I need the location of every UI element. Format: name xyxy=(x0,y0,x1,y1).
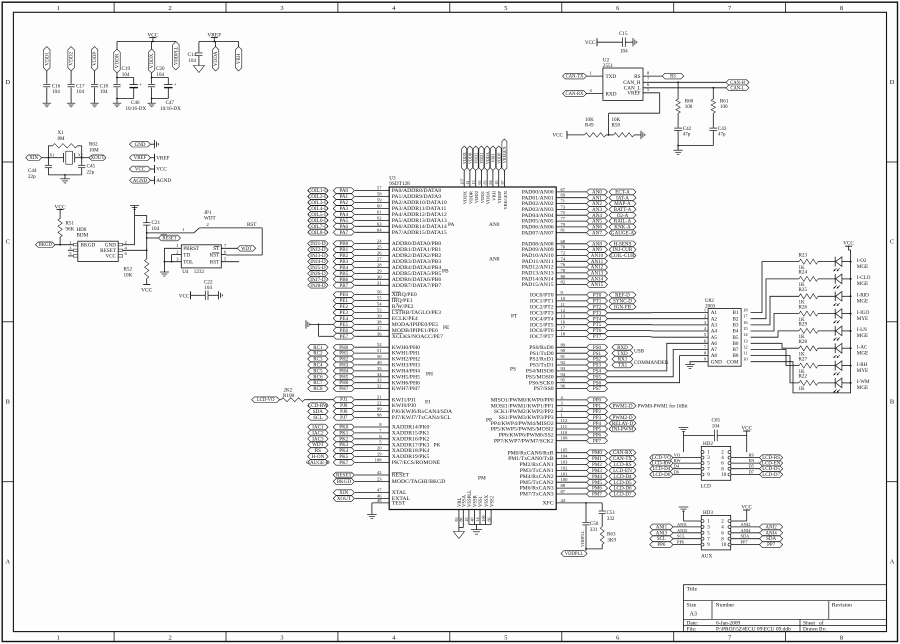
wire U82 GND to ground xyxy=(690,362,708,365)
svg-text:10: 10 xyxy=(721,543,727,548)
resistor R23 1K xyxy=(799,252,819,270)
svg-text:C: C xyxy=(6,239,10,246)
node INJ6-D / pin PB5 xyxy=(308,268,442,277)
svg-text:69: 69 xyxy=(561,193,566,198)
svg-text:SCL: SCL xyxy=(677,534,685,539)
capacitor C21 104 xyxy=(135,215,161,233)
svg-text:17: 17 xyxy=(561,326,566,331)
svg-text:VDDA: VDDA xyxy=(486,190,491,204)
svg-text:VDDX: VDDX xyxy=(149,53,155,68)
svg-text:331: 331 xyxy=(590,527,598,533)
svg-text:BKGD: BKGD xyxy=(337,479,352,485)
svg-text:12: 12 xyxy=(743,344,748,349)
svg-text:VCC: VCC xyxy=(585,40,596,46)
svg-text:AN0: AN0 xyxy=(489,222,500,228)
analog ground xyxy=(193,66,204,73)
svg-text:31: 31 xyxy=(377,280,382,285)
svg-text:104: 104 xyxy=(712,423,720,429)
svg-text:VSSPLL: VSSPLL xyxy=(468,490,473,507)
svg-text:30: 30 xyxy=(377,274,382,279)
svg-text:55: 55 xyxy=(377,296,382,301)
power port VCC xyxy=(130,165,168,173)
svg-text:107: 107 xyxy=(460,179,465,185)
svg-text:60: 60 xyxy=(377,204,382,209)
svg-text:VDDPLL: VDDPLL xyxy=(565,552,584,557)
svg-text:A3: A3 xyxy=(711,323,718,329)
svg-text:RESET: RESET xyxy=(392,473,410,479)
svg-text:21: 21 xyxy=(377,395,382,400)
node SCL xyxy=(650,534,701,543)
svg-text:94: 94 xyxy=(561,372,566,377)
node AN8 / H-SENS xyxy=(522,239,636,248)
net label WDT xyxy=(221,243,256,252)
ground xyxy=(685,365,695,369)
svg-text:13: 13 xyxy=(561,314,566,319)
svg-text:83: 83 xyxy=(483,181,488,185)
node AN14 xyxy=(522,274,608,283)
svg-text:LCD-D7: LCD-D7 xyxy=(613,492,632,498)
svg-text:PA: PA xyxy=(448,222,455,228)
ground xyxy=(90,103,98,107)
svg-text:PE: PE xyxy=(443,325,450,331)
resistor R50 10K xyxy=(608,117,645,139)
svg-text:53: 53 xyxy=(377,308,382,313)
svg-text:77: 77 xyxy=(561,216,566,221)
svg-text:GND: GND xyxy=(135,143,146,148)
svg-text:TD: TD xyxy=(183,253,190,259)
ground xyxy=(67,103,75,107)
ground xyxy=(130,206,139,210)
node PP7 xyxy=(731,540,783,549)
node TEST xyxy=(372,498,406,515)
svg-text:37: 37 xyxy=(377,325,382,330)
svg-text:59: 59 xyxy=(377,198,382,203)
svg-text:47: 47 xyxy=(377,488,382,493)
svg-text:PP7: PP7 xyxy=(741,540,749,545)
svg-text:6: 6 xyxy=(616,5,619,12)
svg-text:RESET: RESET xyxy=(162,237,176,242)
svg-text:80: 80 xyxy=(561,274,566,279)
power symbol VCC xyxy=(55,204,66,213)
svg-text:22: 22 xyxy=(377,401,382,406)
svg-text:ANI3: ANI3 xyxy=(656,531,668,536)
svg-text:A6: A6 xyxy=(711,341,718,347)
svg-text:2: 2 xyxy=(168,634,171,641)
svg-text:26: 26 xyxy=(377,251,382,256)
svg-text:PS7/SS0: PS7/SS0 xyxy=(534,386,554,392)
capacitor C47 10/16-DX electrolytic xyxy=(151,77,181,112)
svg-text:42: 42 xyxy=(377,470,382,475)
power net VDDX xyxy=(460,146,468,204)
svg-text:PT: PT xyxy=(511,314,518,320)
node COIL4-D / pin PA3 xyxy=(308,204,447,213)
node VSS2 xyxy=(486,495,495,521)
svg-text:LCD-D6: LCD-D6 xyxy=(653,473,671,478)
svg-text:B3: B3 xyxy=(732,323,738,329)
svg-text:R26: R26 xyxy=(799,304,808,310)
power net VDDR xyxy=(465,146,473,204)
svg-text:104: 104 xyxy=(76,89,84,95)
svg-text:LCD-D7: LCD-D7 xyxy=(762,473,780,478)
svg-text:C: C xyxy=(890,239,894,246)
svg-text:104: 104 xyxy=(620,49,628,55)
node PS7 xyxy=(534,384,608,393)
wire VREF rail xyxy=(199,41,239,43)
svg-text:D7: D7 xyxy=(749,470,755,475)
wire U82 B3 to LED 3 xyxy=(751,296,799,325)
svg-text:66: 66 xyxy=(486,518,491,522)
svg-text:87: 87 xyxy=(561,489,566,494)
node SCL / pin PJ7 xyxy=(308,412,452,421)
ground xyxy=(60,179,70,183)
svg-text:112: 112 xyxy=(561,418,568,423)
svg-text:10: 10 xyxy=(561,296,566,301)
svg-text:89: 89 xyxy=(561,342,566,347)
svg-text:AN8: AN8 xyxy=(489,257,500,263)
net label LCD-VO xyxy=(252,397,280,403)
capacitor C44 22p xyxy=(28,165,52,180)
svg-text:104: 104 xyxy=(561,454,569,459)
label I-LN MGE xyxy=(857,327,868,339)
svg-text:PP: PP xyxy=(486,418,492,424)
svg-text:B4: B4 xyxy=(732,329,738,335)
svg-text:73: 73 xyxy=(561,204,566,209)
node PT4 xyxy=(530,314,608,323)
capacitor C51 332 xyxy=(599,503,616,527)
svg-text:Size: Size xyxy=(687,602,697,608)
node ANI2 xyxy=(731,522,783,531)
svg-text:3K9: 3K9 xyxy=(607,538,616,544)
power port VREF xyxy=(130,154,170,162)
svg-text:88: 88 xyxy=(561,483,566,488)
connector HD8 BDM xyxy=(68,227,128,261)
node INJ7-D / pin PB6 xyxy=(308,274,442,283)
svg-text:10/16-DX: 10/16-DX xyxy=(160,106,181,112)
power net VDD1 xyxy=(477,146,485,203)
svg-text:VSS1: VSS1 xyxy=(479,495,484,507)
svg-text:IOC7/PT7: IOC7/PT7 xyxy=(530,334,554,340)
net label CAN-TX xyxy=(563,71,603,80)
svg-text:BDM: BDM xyxy=(77,233,89,239)
svg-text:PJ7/KWJ7/TxCAN4/SCL: PJ7/KWJ7/TxCAN4/SCL xyxy=(392,415,452,421)
svg-text:P:\PROJ\5Z4ECU 09\ECU 09.ddb: P:\PROJ\5Z4ECU 09\ECU 09.ddb xyxy=(716,627,791,633)
svg-text:R29: R29 xyxy=(799,322,808,328)
svg-text:91: 91 xyxy=(561,354,566,359)
svg-text:PS7: PS7 xyxy=(593,386,602,392)
svg-text:VCC: VCC xyxy=(843,241,854,247)
svg-text:78: 78 xyxy=(561,268,566,273)
darlington array U82 2803 xyxy=(704,298,749,366)
svg-text:VDD2: VDD2 xyxy=(474,190,479,203)
capacitor C42 47p xyxy=(674,126,692,150)
svg-text:1232: 1232 xyxy=(194,269,205,275)
node XIN xyxy=(333,488,407,497)
wire VSS pins to ground xyxy=(469,510,491,530)
group label AN0 xyxy=(489,222,500,228)
node COIL3-D / pin PA2 xyxy=(308,198,447,207)
net label XIN xyxy=(26,155,49,161)
svg-text:RS: RS xyxy=(670,75,676,80)
wire caps to ground xyxy=(677,145,713,151)
net label BKGD xyxy=(36,242,74,248)
svg-text:VDDP: VDDP xyxy=(496,152,501,164)
supervisor U4 1232 xyxy=(181,245,221,275)
node VSSA xyxy=(459,494,468,521)
ground xyxy=(113,103,121,107)
svg-text:VCC: VCC xyxy=(141,288,152,294)
svg-text:3: 3 xyxy=(280,634,283,641)
node LCD-EN xyxy=(731,458,783,467)
svg-text:ANI3: ANI3 xyxy=(677,528,688,533)
label I-RIO MGE xyxy=(857,293,869,305)
node IAC1 / pin PK0 xyxy=(308,422,430,431)
svg-text:B: B xyxy=(6,399,10,406)
svg-text:PBRST: PBRST xyxy=(183,246,200,252)
svg-text:PA7: PA7 xyxy=(340,230,349,236)
wire PS4 to U82 A6 xyxy=(608,343,709,371)
svg-text:TOL: TOL xyxy=(183,259,193,265)
svg-text:8: 8 xyxy=(840,5,843,12)
svg-text:VRH: VRH xyxy=(236,53,242,64)
svg-text:10: 10 xyxy=(721,473,727,478)
svg-text:VCC: VCC xyxy=(741,425,752,431)
group label AN8 xyxy=(489,257,500,263)
svg-text:41: 41 xyxy=(465,181,470,185)
svg-text:Number: Number xyxy=(716,602,735,608)
svg-text:MGE: MGE xyxy=(857,350,868,356)
svg-text:SCL: SCL xyxy=(313,415,322,421)
node PT5 xyxy=(530,320,608,329)
svg-text:VDD2: VDD2 xyxy=(473,153,478,164)
svg-text:MGE: MGE xyxy=(857,281,868,287)
svg-text:+: + xyxy=(174,82,177,88)
power net VRH xyxy=(235,42,242,71)
label I-CLO MGE xyxy=(857,275,871,287)
node PP4 / RELAY-D xyxy=(491,418,636,427)
LED D8 xyxy=(818,378,852,392)
svg-text:B7: B7 xyxy=(732,347,738,353)
svg-text:INJ8-D: INJ8-D xyxy=(310,283,326,289)
resistor R27 1K xyxy=(799,356,819,374)
svg-text:65: 65 xyxy=(477,181,482,185)
svg-text:1: 1 xyxy=(57,634,60,641)
svg-text:12: 12 xyxy=(561,308,566,313)
node GAUGE-D / pin PK7 xyxy=(306,457,440,466)
svg-text:D6: D6 xyxy=(674,470,680,475)
svg-text:PE7: PE7 xyxy=(340,334,349,340)
node PE5 xyxy=(333,319,438,328)
svg-text:VCC: VCC xyxy=(741,504,752,510)
node RC1 / pin PH0 xyxy=(308,342,420,351)
svg-text:PK7: PK7 xyxy=(339,460,349,466)
svg-text:5: 5 xyxy=(504,634,507,641)
svg-text:CAN-RX: CAN-RX xyxy=(566,92,585,97)
svg-text:29: 29 xyxy=(377,268,382,273)
node SDA xyxy=(731,534,783,543)
svg-text:98: 98 xyxy=(377,412,382,417)
capacitor C43 47p xyxy=(709,126,727,146)
svg-text:U4: U4 xyxy=(182,269,189,275)
svg-text:9SDT128: 9SDT128 xyxy=(389,181,410,187)
svg-text:11: 11 xyxy=(561,302,566,307)
svg-text:PK7/ECS/ROMONE: PK7/ECS/ROMONE xyxy=(392,460,441,466)
svg-text:90: 90 xyxy=(561,348,566,353)
wire PT4 to U82 A2 xyxy=(608,318,709,320)
node AN1 / IAT-A xyxy=(522,193,636,202)
svg-text:49: 49 xyxy=(377,360,382,365)
node AN13 xyxy=(522,268,608,277)
svg-text:MYE: MYE xyxy=(857,316,868,322)
node VSSR xyxy=(470,494,479,521)
svg-text:MGE: MGE xyxy=(857,385,868,391)
svg-text:CAN-L: CAN-L xyxy=(730,86,744,91)
svg-text:3: 3 xyxy=(280,5,283,12)
svg-text:CAN-TX: CAN-TX xyxy=(566,75,584,80)
svg-text:ANI4: ANI4 xyxy=(765,531,777,536)
svg-text:1K: 1K xyxy=(799,386,806,392)
node INJ1-D / pin PB0 xyxy=(308,239,442,248)
wire U82 B1 to LED 1 xyxy=(751,262,799,313)
svg-text:MGE: MGE xyxy=(857,333,868,339)
svg-text:COMMANDER: COMMANDER xyxy=(634,360,669,366)
svg-text:109: 109 xyxy=(561,436,569,441)
node PS4 xyxy=(526,366,608,375)
node PT6 xyxy=(530,326,608,335)
capacitor C19 104 xyxy=(113,66,130,103)
svg-text:96: 96 xyxy=(561,384,566,389)
svg-text:72: 72 xyxy=(561,251,566,256)
node RC8 / pin PH7 xyxy=(308,384,420,393)
svg-text:VRH: VRH xyxy=(491,190,496,200)
node PP6 xyxy=(650,540,701,549)
svg-text:VREF: VREF xyxy=(156,155,169,161)
capacitor C46 10/16-DX electrolytic xyxy=(116,77,146,112)
svg-text:A7: A7 xyxy=(711,347,718,353)
port group label PP xyxy=(486,418,492,424)
svg-text:VDDA: VDDA xyxy=(485,152,490,164)
svg-text:VCC: VCC xyxy=(179,293,190,299)
svg-text:VDD2: VDD2 xyxy=(69,52,75,66)
svg-text:38: 38 xyxy=(377,319,382,324)
node VRL xyxy=(454,497,463,521)
node PM7 / LCD-D7 xyxy=(520,489,636,498)
svg-text:25: 25 xyxy=(377,245,382,250)
node LCD-D4 xyxy=(650,464,701,473)
svg-text:27: 27 xyxy=(377,257,382,262)
wire PT7 to U82 A5 xyxy=(608,336,709,339)
svg-text:PP6: PP6 xyxy=(677,540,685,545)
svg-text:KWH7/PH7: KWH7/PH7 xyxy=(392,386,420,392)
svg-text:95: 95 xyxy=(561,378,566,383)
svg-text:24: 24 xyxy=(377,239,382,244)
node LCD-D6 xyxy=(650,470,701,479)
node ANI3 xyxy=(650,528,701,537)
svg-text:6-Jan-2009: 6-Jan-2009 xyxy=(716,620,741,626)
svg-text:63: 63 xyxy=(377,221,382,226)
svg-text:D5: D5 xyxy=(749,464,755,469)
svg-text:RST: RST xyxy=(210,253,220,259)
svg-text:VDD1: VDD1 xyxy=(480,190,485,203)
node IAC2 / pin PK1 xyxy=(308,428,430,437)
node IAC3 / pin PK2 xyxy=(308,434,430,443)
svg-text:106: 106 xyxy=(481,516,486,522)
svg-text:47p: 47p xyxy=(683,132,691,138)
svg-text:70: 70 xyxy=(561,245,566,250)
svg-text:VSS2: VSS2 xyxy=(490,495,495,507)
svg-text:PP7: PP7 xyxy=(767,543,776,548)
svg-text:PP7: PP7 xyxy=(593,438,602,444)
svg-text:XOUT: XOUT xyxy=(337,496,352,502)
label PWM0-PWM1 for 16Bit xyxy=(638,405,689,410)
svg-text:75: 75 xyxy=(561,210,566,215)
node PM3 / LCD-EN xyxy=(520,465,636,474)
svg-text:VDDPLL: VDDPLL xyxy=(175,46,180,65)
node XOUT xyxy=(333,494,410,503)
svg-text:57: 57 xyxy=(377,186,382,191)
svg-text:R25: R25 xyxy=(799,287,808,293)
capacitor C20 104 xyxy=(148,66,165,103)
svg-text:10M: 10M xyxy=(89,148,99,154)
label I-WM MGE xyxy=(857,379,870,391)
node AN4 / O2-A xyxy=(522,210,636,219)
wire RST net xyxy=(199,222,262,255)
svg-text:36: 36 xyxy=(377,331,382,336)
svg-text:PJ: PJ xyxy=(425,400,430,406)
svg-text:B8: B8 xyxy=(732,353,738,359)
node LCD-RW / pin PJ0 xyxy=(308,401,417,410)
svg-text:PWM0-PWM1 for 16Bit: PWM0-PWM1 for 16Bit xyxy=(638,405,689,410)
svg-text:14: 14 xyxy=(743,332,748,337)
svg-text:110: 110 xyxy=(561,430,568,435)
node AN7 / GAUGE-A xyxy=(522,228,636,237)
net label CAN-L xyxy=(726,85,749,91)
node AN9 / INJ-CUR xyxy=(522,245,636,254)
svg-text:R22: R22 xyxy=(799,374,808,380)
svg-text:RESET: RESET xyxy=(336,473,352,479)
svg-text:RXD: RXD xyxy=(606,92,617,98)
node PE4 xyxy=(333,313,418,322)
svg-text:28: 28 xyxy=(377,262,382,267)
svg-text:PH: PH xyxy=(426,372,433,378)
svg-text:File:: File: xyxy=(687,627,697,633)
svg-text:A8: A8 xyxy=(711,353,718,359)
node PP7 xyxy=(494,436,608,445)
svg-text:AGND: AGND xyxy=(156,178,171,184)
node INJ3-D / pin PB2 xyxy=(308,251,442,260)
node AN6 / KNK-A xyxy=(522,222,636,231)
node PT7 xyxy=(530,332,608,341)
svg-text:81: 81 xyxy=(561,228,566,233)
node COIL7-D / pin PA6 xyxy=(308,221,447,230)
svg-text:6: 6 xyxy=(616,634,619,641)
port group label PS xyxy=(510,367,516,373)
svg-text:18: 18 xyxy=(561,332,566,337)
node LCD-RS xyxy=(731,453,783,462)
svg-text:Title: Title xyxy=(687,587,698,593)
svg-text:1: 1 xyxy=(57,5,60,12)
power net VREGEN xyxy=(500,139,508,210)
node VSSX xyxy=(481,494,490,521)
resistor R28 1K xyxy=(799,339,819,357)
resistor R63 3K9 xyxy=(600,527,616,549)
svg-text:VCC: VCC xyxy=(552,133,563,139)
node PM5 / LCD-D5 xyxy=(520,477,636,486)
svg-text:2: 2 xyxy=(176,250,178,255)
svg-text:PM7/TxCAN3: PM7/TxCAN3 xyxy=(520,492,554,498)
node INJ8-D / pin PB7 xyxy=(308,280,442,289)
node PM1 / CAN-TX xyxy=(508,454,636,463)
svg-text:WDT: WDT xyxy=(204,216,216,222)
